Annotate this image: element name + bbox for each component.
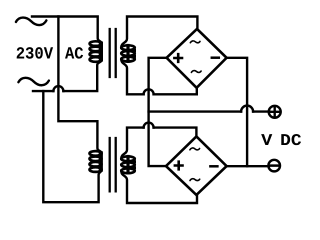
BR2 mark: ~ top bbox=[190, 148, 200, 150]
BR1 mark: ~ bottom bbox=[191, 71, 201, 73]
transformer T1 secondary winding (3 loops) bbox=[121, 45, 135, 61]
BR1 mark: ~ top bbox=[190, 41, 200, 43]
BR2 mark: + (left vertex, DC positive) bbox=[175, 162, 183, 170]
bridge rectifier BR2 diamond bbox=[166, 136, 227, 195]
transformer T2 secondary winding (3 loops) bbox=[121, 156, 135, 173]
wire A: AC line 1 down, across, down into T2 primary top hook bbox=[58, 17, 101, 154]
wire: + bus from BR1 left vertex down to BR2 left vertex bbox=[149, 58, 167, 166]
wire C: AC line 2 down, bottom rail, up into T2 primary bottom hook bbox=[43, 91, 101, 202]
wire: T2 secondary bottom hook, bottom rail to BR2 bottom vertex bbox=[121, 171, 197, 203]
BR1 mark: - (right vertex, DC negative) bbox=[212, 56, 219, 59]
output terminal - (circle with minus) bbox=[268, 160, 280, 172]
wire: top AC rail into transformer T1 primary top hook bbox=[32, 17, 102, 44]
svg-text:V: V bbox=[261, 131, 272, 150]
output terminal + (circle with plus) bbox=[269, 106, 281, 118]
AC source squiggle 2 (bottom input terminal) bbox=[18, 78, 49, 85]
BR1 mark: + (left vertex, DC positive) bbox=[174, 54, 182, 62]
wire: - bus from BR1 right vertex down to negative output wire bbox=[227, 58, 248, 166]
AC source squiggle 1 (top input terminal) bbox=[16, 18, 47, 25]
wire hop: BR1 AC-bottom wire jumps over + bus bbox=[144, 89, 154, 94]
transformer T2 primary winding (4 loops) bbox=[90, 151, 102, 172]
wire hop: + output wire jumps over - bus bbox=[241, 106, 253, 112]
BR2 mark: - (right vertex, DC negative) bbox=[210, 165, 217, 168]
transformer T2 core bbox=[110, 138, 116, 191]
svg-text:230V: 230V bbox=[16, 46, 54, 65]
wire hop: AC line 2 jumps over wire A bbox=[53, 86, 63, 91]
wire: T1 secondary top hook, rail to bridge BR1 top vertex bbox=[121, 17, 197, 48]
transformer T1 primary winding (4 loops) bbox=[90, 41, 102, 62]
wire: + bus branch right to positive output terminal bbox=[149, 110, 270, 112]
wire: BR2 right vertex to negative output terminal bbox=[227, 165, 269, 167]
transformer T1 core bbox=[110, 29, 116, 77]
wire hop: BR2 AC-top wire jumps over + bus bbox=[144, 123, 154, 128]
bridge rectifier BR1 diamond bbox=[167, 29, 227, 88]
wire: AC line 2 horizontal to T1 primary bottom hook bbox=[33, 60, 102, 92]
wire: T1 secondary bottom hook down to BR1 bottom vertex bbox=[121, 59, 197, 94]
BR2 mark: ~ bottom bbox=[190, 179, 200, 181]
svg-text:AC: AC bbox=[65, 46, 84, 65]
wire: T2 secondary top hook up to BR2 AC-top wire bbox=[121, 128, 196, 159]
svg-text:DC: DC bbox=[280, 131, 301, 150]
